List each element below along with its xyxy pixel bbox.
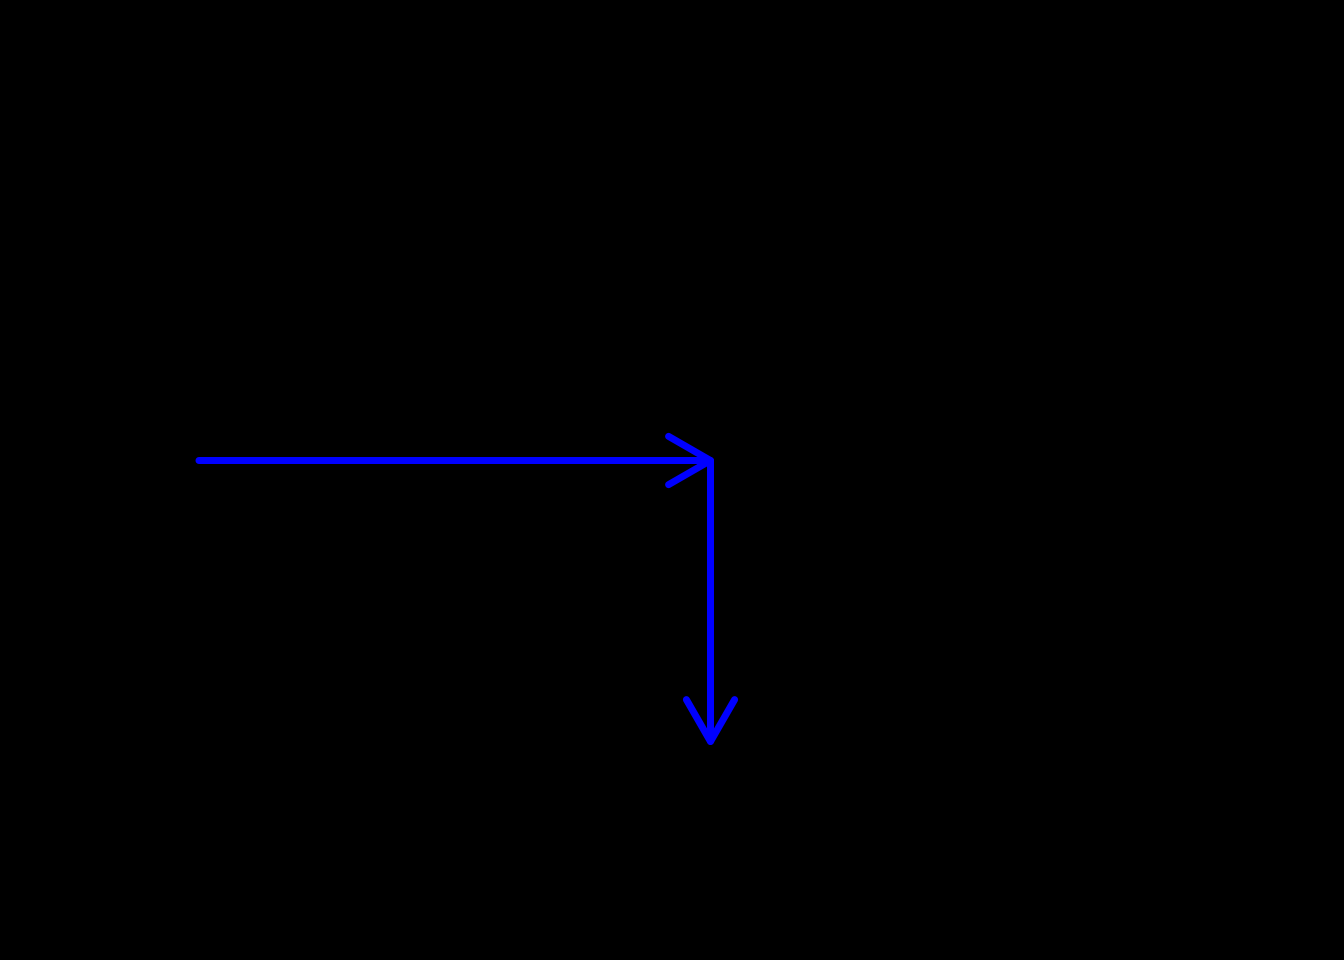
arrowhead: down-pointing (open barbs) [686, 700, 734, 742]
wire: horizontal arrow shaft [199, 457, 711, 464]
arrowhead: right-pointing (open barbs) [669, 436, 711, 484]
wire: vertical arrow shaft [707, 461, 714, 742]
